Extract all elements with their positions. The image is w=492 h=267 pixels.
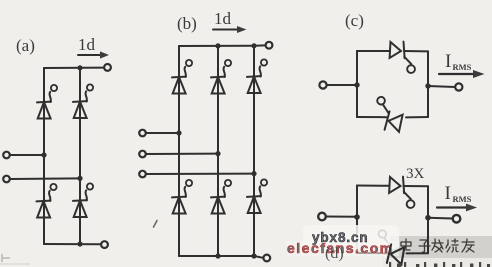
node: (b) bottom bus junction mid (215, 253, 220, 258)
thyristor V1 (a upper-left) (37, 85, 57, 119)
thyristor V14 triangle redrawn over watermark (387, 244, 405, 265)
watermark white halo box (303, 225, 399, 249)
wire: (c) top edge left segment (357, 50, 390, 52)
watermark gray panel (390, 236, 492, 259)
wire: (c) top edge right segment (405, 50, 429, 52)
terminal: (b) AC input 1 (139, 130, 146, 137)
terminal: (d) left (318, 213, 326, 221)
wire: (c) right side (427, 51, 429, 117)
svg-text:(a): (a) (16, 36, 35, 55)
wire: (c) bottom edge left segment (357, 116, 387, 118)
wire: (b) top bus (179, 45, 254, 47)
thyristor V10 (b lower leg3) (247, 179, 267, 213)
wire: (b) top bus stub to terminal (254, 44, 265, 46)
wire: (d) bottom edge left segment (357, 252, 387, 254)
thyristor V8 (b lower leg1) (172, 180, 192, 214)
thyristor V11 (c top, forward) (389, 41, 416, 73)
node: (b) input2 junction (215, 151, 220, 156)
wire: (d) right lead (428, 217, 453, 220)
wire: (d) top edge right segment (404, 185, 428, 187)
node: (b) top bus junction mid (215, 43, 220, 48)
thyristor V5 (b upper leg1) (172, 60, 192, 94)
node: (b) top bus junction right (251, 43, 256, 48)
wire: (b) input 2 (146, 153, 218, 155)
thyristor V7 (b upper leg3) (247, 59, 267, 93)
stray mark near (b) (154, 221, 158, 228)
terminal: (b) AC input 3 (139, 171, 146, 178)
wire: (b) bottom bus (179, 255, 254, 257)
char 发 (432, 239, 443, 252)
thyristor V6 (b upper leg2) (211, 60, 231, 94)
wire: (c) right lead (428, 86, 455, 87)
wire: (d) left side (356, 186, 358, 254)
wire: (a) top bus (44, 67, 104, 69)
terminal: (d) right (453, 215, 461, 223)
wire: (a) input 1 (10, 154, 44, 156)
thyristor V4 (a lower-right) (73, 183, 93, 217)
wire: (b) input 3 (146, 173, 254, 175)
node: (d) left junction (354, 214, 360, 220)
wire: (d) bottom edge right segment (407, 252, 429, 254)
thyristor V9 (b lower leg2) (211, 180, 231, 214)
wire: (a) left leg (43, 68, 45, 244)
node: (a) top bus junction (77, 65, 82, 70)
terminal: (c) right (455, 83, 462, 90)
wire: (d) right side (427, 186, 429, 253)
terminal: (c) left (319, 81, 326, 88)
thyristor V2 (a upper-right) (73, 84, 93, 118)
wire: (b) leg 2 (217, 46, 219, 256)
svg-text:1d: 1d (214, 9, 232, 28)
wire: (b) leg 1 (178, 46, 180, 256)
watermark cropped glyph row at bottom edge (389, 262, 490, 267)
wire: (a) right leg (79, 68, 81, 244)
terminal: (a) negative output (101, 241, 108, 248)
node: (b) input3 junction (251, 171, 256, 176)
char 烧 (446, 239, 458, 252)
svg-text:(d): (d) (325, 245, 344, 262)
wire: (d) top edge left segment (357, 185, 390, 187)
terminal: (b) positive output (266, 42, 273, 49)
terminal: (a) AC input 1 (3, 152, 10, 159)
node: (c) left junction (354, 82, 359, 87)
wire: (b) leg 3 (253, 46, 255, 256)
node: (a) bottom bus junction (77, 241, 82, 246)
wire: (a) bottom bus (44, 243, 100, 245)
thyristor V13 (d top, forward) (388, 176, 415, 208)
arrow I of (c) (439, 73, 474, 75)
arrow 1d of (a) (78, 54, 101, 56)
char 电 (401, 239, 411, 250)
wire: (c) bottom edge right segment (406, 116, 428, 118)
watermark text dianzi fashaoyou (drawn glyphs) (401, 239, 474, 252)
wire: (c) left lead (327, 84, 357, 86)
terminal: (b) AC input 2 (139, 151, 146, 158)
svg-text:I: I (445, 51, 451, 72)
thyristor V3 (a lower-left) (37, 184, 57, 218)
arrow 1d of (b) (213, 29, 238, 31)
node: (a) input 1 junction (41, 152, 46, 157)
svg-text:1d: 1d (78, 35, 96, 54)
char 友 (462, 239, 474, 252)
svg-text:(b): (b) (177, 14, 197, 33)
node: (a) input 2 junction (77, 176, 82, 181)
node: (c) right junction (425, 83, 430, 88)
faint marks bottom-left (0, 254, 30, 264)
wire: (b) bottom stub to terminal (254, 256, 263, 258)
arrow I of (d) (437, 206, 467, 208)
svg-text:RMS: RMS (453, 194, 472, 204)
wire: (b) input 1 (146, 132, 179, 134)
wire: (d) left lead (326, 216, 357, 218)
terminal: (b) negative output (263, 255, 270, 262)
node: (b) bottom bus junction right (251, 253, 256, 258)
terminal: (a) AC input 2 (3, 176, 10, 183)
svg-text:I: I (445, 183, 451, 204)
watermark bottom strip (383, 258, 492, 267)
terminal: (a) positive output (104, 64, 111, 71)
svg-text:(c): (c) (345, 11, 364, 30)
svg-text:RMS: RMS (453, 62, 472, 72)
thyristor V12 (c bottom, reverse) (372, 96, 406, 133)
wire: (c) left side (356, 51, 358, 117)
char 子 (419, 240, 430, 252)
wire: (a) input 2 (10, 177, 80, 180)
svg-text:3X: 3X (406, 166, 425, 182)
thyristor V14 (d bottom, reverse) (374, 230, 407, 266)
node: (d) right junction (425, 215, 431, 221)
node: (b) input1 junction (176, 130, 181, 135)
